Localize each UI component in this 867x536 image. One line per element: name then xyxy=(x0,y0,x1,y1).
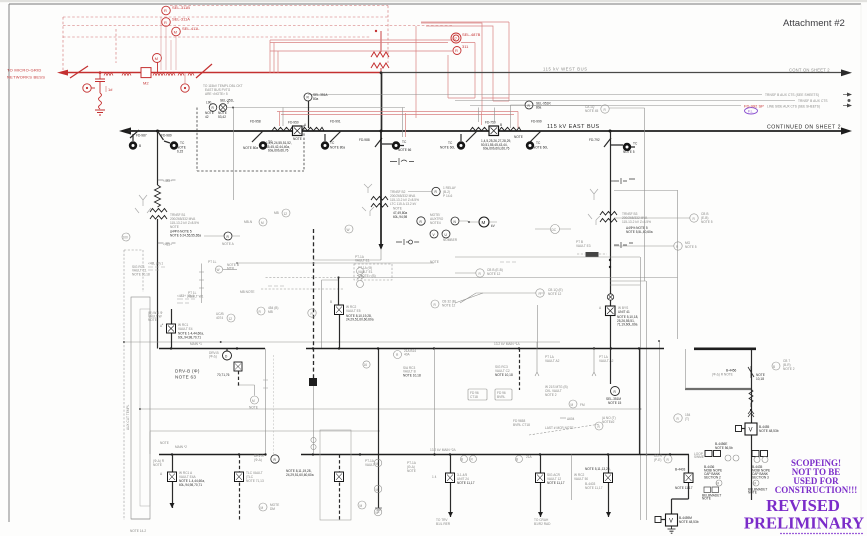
svg-text:60a,60b,60c,66,76: 60a,60b,60c,66,76 xyxy=(483,147,510,151)
svg-text:B: B xyxy=(139,144,141,148)
cap bank cluster 2 xyxy=(752,451,759,457)
svg-text:VAULT W1: VAULT W1 xyxy=(188,295,204,299)
pot device circle below xyxy=(181,84,189,92)
svg-text:Δ604: Δ604 xyxy=(567,417,575,421)
bay x339 below bus2 xyxy=(339,455,341,521)
bay x172 xyxy=(172,455,174,509)
svg-text:NETWORKS BESS: NETWORKS BESS xyxy=(7,75,45,80)
svg-text:16: 16 xyxy=(364,363,368,367)
wire feeder B3 xyxy=(610,131,612,349)
arrester tap arrow b1 xyxy=(158,179,176,181)
wire y273 stub xyxy=(455,272,476,274)
bay x540 xyxy=(540,455,542,518)
svg-text:42: 42 xyxy=(205,115,209,119)
sheet border frame top xyxy=(9,3,861,5)
svg-text:FD-989: FD-989 xyxy=(161,134,172,138)
red CT wiring lower run xyxy=(448,43,475,99)
V box unit bottom xyxy=(666,514,678,526)
svg-text:70,71,76: 70,71,76 xyxy=(217,373,230,377)
routing vertical x659 xyxy=(659,341,661,454)
svg-text:60L,94,98,70,71: 60L,94,98,70,71 xyxy=(179,483,202,487)
svg-text:TC: TC xyxy=(448,141,453,145)
svg-text:R: R xyxy=(164,20,167,25)
wire x751 down xyxy=(751,349,753,423)
svg-text:NOTE: NOTE xyxy=(148,318,157,322)
dashed heavy feeder x313 xyxy=(313,229,315,378)
relay R note A xyxy=(224,232,232,240)
cap bank cluster 1 xyxy=(751,435,753,500)
gray ct drops xyxy=(283,108,495,138)
svg-text:87: 87 xyxy=(453,36,458,41)
svg-text:M2: M2 xyxy=(143,81,149,86)
reactor coil right of FD-750 xyxy=(499,127,521,131)
motor relay M xyxy=(153,54,162,63)
red dashed supervisory wire row4 xyxy=(63,36,370,38)
node: west/red bus junction xyxy=(380,71,383,74)
svg-text:B: B xyxy=(773,365,775,369)
CT FD-989 xyxy=(170,141,178,149)
svg-text:NOTE 63: NOTE 63 xyxy=(175,375,196,380)
svg-text:FD-792: FD-792 xyxy=(589,138,600,142)
stamp ellipse F.L. xyxy=(745,108,758,114)
svg-text:NOTE 80a: NOTE 80a xyxy=(330,146,345,150)
relay N xyxy=(451,217,459,225)
dashes bottom left xyxy=(131,518,150,520)
svg-text:M: M xyxy=(376,462,379,466)
relay co R xyxy=(664,455,672,463)
svg-text:NOTE 45: NOTE 45 xyxy=(585,109,599,113)
arrow down feeder B2 xyxy=(379,244,384,250)
svg-text:V: V xyxy=(669,519,673,525)
wire feeder B1 lower xyxy=(157,219,159,349)
gray relay 12 xyxy=(227,314,235,322)
CT FD-987 xyxy=(129,141,137,149)
disconnect FD-792 xyxy=(604,138,611,147)
circle 16 xyxy=(363,361,370,368)
hash row upper xyxy=(500,261,516,263)
disconnect FD-987 xyxy=(128,130,139,138)
red CT wiring loop A xyxy=(416,23,482,118)
svg-text:M: M xyxy=(261,506,264,510)
breaker TLC xyxy=(235,472,244,482)
svg-text:M: M xyxy=(376,488,379,492)
bay x450 xyxy=(450,455,452,518)
svg-text:M: M xyxy=(261,221,264,225)
sheet border frame left xyxy=(8,4,10,522)
transformer B3 winding xyxy=(600,212,617,216)
capacitor bushing b2 lower xyxy=(396,239,419,245)
grounding wye glyph B1 xyxy=(135,195,151,213)
slanted dashed jumper xyxy=(529,424,600,435)
svg-text:PRELIMINARY: PRELIMINARY xyxy=(744,514,864,533)
arrow end bay 608 xyxy=(606,512,611,517)
relay 12 gray xyxy=(282,209,290,217)
inductor coil to ground xyxy=(99,93,102,109)
svg-text:(Φ-Δ): (Φ-Δ) xyxy=(209,355,217,359)
svg-text:VAULT E4: VAULT E4 xyxy=(178,327,193,331)
V box B-4455 xyxy=(745,423,757,435)
breaker cube x313 xyxy=(309,378,317,386)
svg-text:NOTE: NOTE xyxy=(514,135,523,139)
circle R drv2 xyxy=(271,455,279,463)
junction dot y342 xyxy=(220,341,222,343)
bus 13.2kV main1 right segment xyxy=(306,348,664,350)
svg-text:SECTION 3: SECTION 3 xyxy=(752,476,769,480)
svg-text:NOTE: NOTE xyxy=(153,463,162,467)
svg-text:VAULT E1: VAULT E1 xyxy=(355,259,370,263)
svg-text:NOTE: NOTE xyxy=(748,491,757,495)
meter M kV xyxy=(479,217,489,227)
aux CT line 3 xyxy=(470,105,741,107)
relay SEL-351A xyxy=(304,93,312,101)
svg-text:NOTE#2: NOTE#2 xyxy=(602,420,615,424)
wire x685 xyxy=(685,349,687,389)
svg-text:NOTE 15: NOTE 15 xyxy=(608,401,622,405)
svg-text:12: 12 xyxy=(284,212,288,216)
svg-text:VAULT A2: VAULT A2 xyxy=(545,359,560,363)
gray relay 454 xyxy=(257,307,265,315)
relay CB32 xyxy=(431,300,439,308)
svg-text:NOTE: NOTE xyxy=(160,441,169,445)
ground xyxy=(95,110,105,115)
svg-text:BVRL: BVRL xyxy=(497,395,506,399)
svg-text:NOTE 66: NOTE 66 xyxy=(398,148,412,152)
meter M bay xyxy=(259,503,267,511)
relay SEL-351R xyxy=(611,387,620,396)
bay x608 xyxy=(608,455,610,518)
meter M FM xyxy=(569,400,577,408)
transformer B1 winding xyxy=(150,209,167,213)
fuse B-4456 xyxy=(748,366,754,378)
svg-text:DRV-B (Φ): DRV-B (Φ) xyxy=(175,369,200,374)
svg-text:MB NOTE: MB NOTE xyxy=(240,290,255,294)
svg-text:TC: TC xyxy=(633,142,638,146)
relay M gray xyxy=(259,218,267,226)
junction dot y263 xyxy=(236,262,238,264)
link dots right section xyxy=(640,408,642,410)
breaker M2 xyxy=(141,68,151,78)
red riser pair crossing west bus xyxy=(482,98,509,101)
break symbol on y277 xyxy=(357,275,364,279)
node east bus jct B2 xyxy=(380,130,383,133)
svg-text:VAULT 50: VAULT 50 xyxy=(574,477,588,481)
resistor vertical B1 xyxy=(155,185,161,207)
svg-text:FD-987: FD-987 xyxy=(136,134,147,138)
wire x171 xyxy=(171,309,173,349)
arrow to micro-grid xyxy=(57,70,68,76)
svg-text:NOTE 71,13: NOTE 71,13 xyxy=(246,479,264,483)
svg-text:NOTE 14-2: NOTE 14-2 xyxy=(130,529,146,533)
svg-text:NOTE 56,5b: NOTE 56,5b xyxy=(715,446,733,450)
motor D circle xyxy=(223,351,232,360)
svg-text:4074: 4074 xyxy=(216,316,223,320)
wire stub to W xyxy=(223,269,237,271)
svg-text:NOTE 2: NOTE 2 xyxy=(783,367,795,371)
svg-text:40A: 40A xyxy=(404,353,411,357)
routing vertical from aux area xyxy=(644,108,646,281)
svg-text:M: M xyxy=(376,511,379,515)
wire: bus tie west to east xyxy=(381,73,383,131)
red dashed supervisory wire row1 xyxy=(170,5,388,7)
red CT wiring loop B xyxy=(421,22,509,101)
svg-text:VAULT E3: VAULT E3 xyxy=(576,244,591,248)
svg-text:V: V xyxy=(749,428,753,434)
disconnect FD-759 xyxy=(466,131,477,142)
bus 13.2kV right thick segment xyxy=(694,347,756,350)
wire feeder B2 upper (thick) xyxy=(380,131,382,248)
disconnect FD-991 xyxy=(330,131,341,142)
CT left of FD-991 xyxy=(321,141,329,149)
svg-text:B1/R2 RAD: B1/R2 RAD xyxy=(534,522,551,526)
svg-text:13.2 kV MAIN *1Δ: 13.2 kV MAIN *1Δ xyxy=(494,342,521,346)
svg-text:MB-N: MB-N xyxy=(244,220,253,224)
svg-text:W: W xyxy=(347,228,350,232)
disconnect blade on red bus xyxy=(196,64,212,78)
corner wire to W-RC2 xyxy=(322,280,339,348)
svg-text:CONT ON SHEET 2: CONT ON SHEET 2 xyxy=(789,68,830,73)
dashed zone box east bus prot xyxy=(197,108,304,172)
svg-text:M: M xyxy=(360,504,363,508)
svg-text:M: M xyxy=(717,482,720,486)
long routing wire y277 dashed part xyxy=(266,277,339,279)
arrow dashes x171 xyxy=(177,299,195,303)
reactor coil right of FD-950 xyxy=(302,127,324,131)
relay SEL-311B xyxy=(162,6,171,15)
routing verticals right pair xyxy=(641,257,647,520)
relay R b2 aux xyxy=(417,217,425,225)
relay gray right xyxy=(772,362,780,370)
long routing wire y257 xyxy=(455,256,640,258)
bay x688 V-unit xyxy=(672,455,689,515)
CT FD-999 xyxy=(526,141,534,149)
svg-text:L90: L90 xyxy=(206,101,212,105)
fuse link dashed b3 xyxy=(577,253,607,255)
svg-text:B: B xyxy=(330,300,332,304)
red CT wiring to relays xyxy=(270,40,453,51)
svg-text:NOTE 6 24,55,55,65a: NOTE 6 24,55,55,65a xyxy=(170,234,201,238)
115 kV WEST BUS xyxy=(381,72,842,74)
east bus east arrow xyxy=(841,127,852,134)
breaker W-RC2 xyxy=(335,305,344,315)
sheet border frame right xyxy=(860,4,862,522)
unit breaker UNIT41 xyxy=(606,306,616,316)
svg-text:MTR: MTR xyxy=(227,267,235,271)
relay V xyxy=(430,230,438,238)
svg-text:NOTE4: NOTE4 xyxy=(430,221,441,225)
relay SEL-411L xyxy=(172,27,181,36)
relay SEL-311A xyxy=(162,18,171,27)
svg-text:BVRL CT18: BVRL CT18 xyxy=(513,423,530,427)
svg-text:10,18: 10,18 xyxy=(756,377,764,381)
routing rect outer left xyxy=(124,250,143,520)
arrester zigzag x751 xyxy=(749,389,753,407)
svg-text:R: R xyxy=(455,48,458,53)
CT FD-988 xyxy=(392,141,400,149)
svg-text:5: 5 xyxy=(227,101,229,105)
bus1 junction dots xyxy=(170,347,172,349)
svg-text:M: M xyxy=(155,56,158,61)
heavy dashed feeder x519 xyxy=(519,349,521,391)
svg-text:B1/L RER: B1/L RER xyxy=(436,522,451,526)
svg-text:NOTE 11,17: NOTE 11,17 xyxy=(675,486,693,490)
diagonal stub wire xyxy=(455,293,483,303)
svg-text:UNIT 41: UNIT 41 xyxy=(618,310,630,314)
wire SEL-951R left corner xyxy=(511,105,526,128)
svg-text:VAULT: VAULT xyxy=(365,463,375,467)
svg-text:REVISED: REVISED xyxy=(766,496,840,515)
tall rect around bay339 xyxy=(320,430,351,520)
wire x639 between buses xyxy=(639,349,641,455)
svg-text:24,29,51,60,60,60a: 24,29,51,60,60,60a xyxy=(286,473,314,477)
svg-text:NOTE: NOTE xyxy=(407,469,416,473)
relay SEL-487B double circle xyxy=(451,33,461,43)
svg-text:B: B xyxy=(461,458,463,462)
ground below V box xyxy=(668,526,676,533)
svg-text:CONTINUED ON SHEET 2: CONTINUED ON SHEET 2 xyxy=(767,124,841,130)
svg-text:NOTE: NOTE xyxy=(170,225,179,229)
routing vertical x677 xyxy=(614,190,678,339)
right mid gray bus xyxy=(685,388,751,390)
wire relay group to bus xyxy=(227,108,405,201)
svg-text:71,19,60L,60a: 71,19,60L,60a xyxy=(617,323,638,327)
node junction at arrester tap xyxy=(99,71,102,74)
CT left of FD-750 xyxy=(457,141,465,149)
ground bay 378 xyxy=(375,508,382,512)
bus 13.2kV main2 left segment xyxy=(159,454,265,456)
svg-text:TC: TC xyxy=(402,140,407,144)
svg-text:12: 12 xyxy=(229,317,233,321)
CT zigzag marks on red bus xyxy=(104,73,131,76)
wire SEL-951R to CB1Q xyxy=(533,105,576,107)
gray link lines bottom left xyxy=(149,432,151,455)
svg-text:NOTE 5,11,13,25,: NOTE 5,11,13,25, xyxy=(585,467,611,471)
routing rect tall box xyxy=(131,297,150,519)
bay x571 xyxy=(571,455,573,501)
red dashed supervisory wire row3 xyxy=(63,25,452,27)
long routing wire y342 xyxy=(124,341,560,343)
relay CB10 xyxy=(601,105,609,113)
svg-text:NOTE: NOTE xyxy=(702,497,711,501)
surge arrester gap xyxy=(95,73,105,93)
red dashed junction dot xyxy=(375,30,377,32)
long routing wire y263 xyxy=(237,262,434,264)
aux CT line 2 xyxy=(455,100,795,102)
east bus west arrow xyxy=(119,127,131,134)
relay CB B (E-B) xyxy=(690,214,698,222)
capacitor bushing b3 lower xyxy=(614,242,633,248)
bus 13.2kV main1 left segment xyxy=(159,348,265,350)
svg-text:ARE <NOTE> 5: ARE <NOTE> 5 xyxy=(205,92,228,96)
node east bus jct B3 xyxy=(609,130,612,133)
svg-text:R: R xyxy=(164,8,167,13)
reactor coil left of FD-750 xyxy=(470,127,488,131)
svg-text:60a,60b,66,76: 60a,60b,66,76 xyxy=(268,149,289,153)
svg-text:LAST # MCR NOTE: LAST # MCR NOTE xyxy=(545,426,573,430)
svg-text:SECTION 2: SECTION 2 xyxy=(704,476,721,480)
capacitor bushing b3 xyxy=(614,178,635,184)
115 kV EAST BUS xyxy=(128,130,843,132)
svg-text:Attachment #2: Attachment #2 xyxy=(783,18,845,29)
grounding wye glyph B2 xyxy=(362,184,374,216)
dots bottom bus2 columns xyxy=(264,453,266,455)
svg-text:NOTE 5: NOTE 5 xyxy=(685,245,697,249)
red dashed supervisory wire row2 xyxy=(63,16,388,18)
svg-text:NOTE 5: NOTE 5 xyxy=(701,220,713,224)
relay R x599 xyxy=(595,422,603,430)
jog wire B2 to x313 xyxy=(313,250,381,260)
svg-text:PT 1L: PT 1L xyxy=(208,260,217,264)
svg-text:TC: TC xyxy=(536,141,541,145)
hash row mid xyxy=(268,285,284,287)
transformer T-BESS winding 2 xyxy=(371,63,389,68)
relay R SEL-351L xyxy=(209,104,217,112)
svg-text:VAULT A2: VAULT A2 xyxy=(599,359,614,363)
wire transformer to bus xyxy=(380,31,382,73)
svg-text:80a: 80a xyxy=(536,105,542,109)
circle M x362 xyxy=(358,501,366,509)
svg-text:115 kV EAST BUS: 115 kV EAST BUS xyxy=(547,124,600,130)
svg-text:CONSTRUCTION!!!: CONSTRUCTION!!! xyxy=(775,485,858,495)
svg-text:NOTE 10,18: NOTE 10,18 xyxy=(495,373,513,377)
transformer B2 winding xyxy=(371,197,388,201)
svg-text:M: M xyxy=(571,403,574,407)
relay R 154 xyxy=(674,414,682,422)
relay CB10 E xyxy=(536,289,544,297)
circle W upper xyxy=(215,266,222,273)
relay R w-rc2 xyxy=(308,309,316,317)
svg-text:<483+: <483+ xyxy=(163,179,172,183)
svg-text:NOTE 60L: NOTE 60L xyxy=(440,146,455,150)
svg-text:NOTE 2: NOTE 2 xyxy=(545,393,557,397)
long routing wire y281 xyxy=(610,280,646,282)
svg-text:W: W xyxy=(217,268,220,272)
wire x339 xyxy=(339,278,340,349)
svg-text:NOTE A: NOTE A xyxy=(222,242,235,246)
CT FD-958 xyxy=(259,141,267,149)
svg-text:NOTE: NOTE xyxy=(393,207,402,211)
svg-text:53,42: 53,42 xyxy=(218,115,226,119)
svg-text:NOMBER: NOMBER xyxy=(443,238,458,242)
red dashed verticals xyxy=(63,6,388,71)
routing rect tall box inner xyxy=(140,309,150,506)
long routing wire y431 xyxy=(150,430,380,432)
svg-text:M: M xyxy=(754,482,757,486)
svg-text:FD-950: FD-950 xyxy=(288,121,299,125)
dashed feeder below xyxy=(238,371,240,386)
svg-text:6,15: 6,15 xyxy=(177,150,183,154)
meter M drv bay xyxy=(251,396,259,404)
svg-text:(Φ-Δ) R NOTE: (Φ-Δ) R NOTE xyxy=(712,373,733,377)
svg-text:24,29,51,60,60,60a: 24,29,51,60,60,60a xyxy=(346,318,374,322)
svg-text:60L,94,98: 60L,94,98 xyxy=(393,215,407,219)
svg-text:FD-999: FD-999 xyxy=(531,120,542,124)
svg-text:NOTE 48,53b: NOTE 48,53b xyxy=(679,520,699,524)
svg-text:MB: MB xyxy=(268,310,273,314)
light vertical x273 xyxy=(273,355,275,454)
svg-text:B-4403: B-4403 xyxy=(675,468,686,472)
node dots on left conduit xyxy=(123,341,125,343)
hash marks near x265 xyxy=(263,380,268,388)
svg-text:SEL-411L: SEL-411L xyxy=(182,26,200,31)
wire: red 115kV tie bus xyxy=(68,72,381,74)
svg-text:MAIN *1: MAIN *1 xyxy=(190,342,202,346)
bay x239 dashed xyxy=(239,455,241,521)
relay SEL-951R xyxy=(525,101,533,109)
svg-text:<483+: <483+ xyxy=(163,243,172,247)
svg-text:100: 100 xyxy=(123,236,129,240)
aux CT line 1 xyxy=(308,94,762,96)
svg-text:TRNSF B AUX CTS (SEE SHEETS): TRNSF B AUX CTS (SEE SHEETS) xyxy=(765,93,819,97)
